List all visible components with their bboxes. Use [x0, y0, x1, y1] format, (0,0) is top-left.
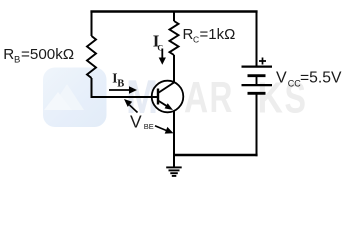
- svg-text:R: R: [3, 46, 14, 63]
- label IB: [112, 70, 124, 89]
- wire RC bottom to collector: [173, 55, 175, 83]
- svg-text:V: V: [130, 111, 142, 131]
- label VCC=5.5V: [276, 70, 342, 89]
- wire bottom rail: [173, 154, 258, 156]
- svg-text:B: B: [14, 55, 20, 66]
- battery VCC plus sign: [259, 58, 266, 65]
- wire RC top stub: [173, 10, 175, 21]
- resistor RC (zigzag): [170, 21, 179, 55]
- arrow VBE to base wire: [124, 99, 138, 113]
- svg-text:BE: BE: [144, 122, 154, 131]
- arrow IB (current, pointing right): [109, 86, 137, 94]
- svg-text:=500kΩ: =500kΩ: [21, 46, 74, 63]
- svg-text:B: B: [117, 78, 124, 89]
- wire top rail: [90, 10, 257, 12]
- label IC: [153, 31, 164, 52]
- svg-text:R: R: [183, 26, 194, 43]
- ground: [166, 155, 182, 176]
- wire RB bottom + base wire to transistor: [90, 78, 158, 97]
- transistor Q1 emitter line with arrow: [158, 100, 173, 110]
- label RC=1kOhm: [183, 26, 236, 44]
- transistor Q1 circle (white fill over watermark): [152, 81, 184, 113]
- watermark icon (light blue rounded square): [43, 67, 107, 127]
- wire left vertical (top of RB): [91, 11, 93, 36]
- battery VCC plates: [242, 67, 273, 94]
- svg-text:=1kΩ: =1kΩ: [200, 26, 236, 43]
- wire emitter down to bottom rail: [173, 111, 175, 157]
- label RB=500kOhm: [3, 46, 74, 66]
- watermark letters ARKS: [184, 73, 306, 123]
- transistor Q1 base bar: [157, 88, 159, 104]
- wire right vertical (bottom of battery): [255, 93, 257, 156]
- svg-text:A: A: [184, 74, 208, 122]
- arrow IC (current, pointing down): [159, 48, 166, 64]
- svg-text:=5.5V: =5.5V: [300, 70, 342, 87]
- svg-text:C: C: [193, 34, 199, 44]
- wire right vertical (top, to battery +): [256, 11, 258, 66]
- arrow VBE to emitter wire: [155, 126, 174, 134]
- svg-text:V: V: [276, 70, 287, 87]
- resistor RB (zigzag): [87, 36, 96, 78]
- label VBE: [130, 111, 154, 131]
- watermark letter M: [126, 71, 158, 123]
- svg-text:R: R: [209, 73, 232, 122]
- transistor Q1 collector line: [158, 82, 174, 93]
